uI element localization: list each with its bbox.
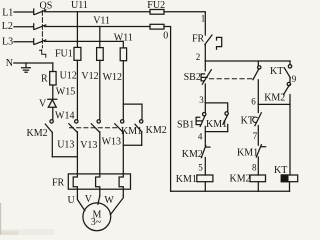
wire W13 column	[122, 132, 124, 174]
svg-text:4: 4	[198, 131, 203, 141]
svg-text:9: 9	[292, 74, 297, 84]
wire KM2 coil to rail	[257, 182, 259, 192]
resistor R	[50, 72, 56, 86]
QS mechanical link	[41, 11, 43, 48]
svg-text:KM2: KM2	[27, 128, 48, 139]
node 2 wire	[205, 60, 290, 62]
coil KM2	[250, 175, 266, 182]
svg-text:W13: W13	[102, 136, 121, 147]
fuse FU1 pole 2	[97, 48, 104, 61]
svg-text:V: V	[85, 194, 93, 205]
bottom rail	[171, 190, 290, 192]
svg-text:KM2: KM2	[182, 149, 203, 160]
ground	[22, 63, 31, 72]
svg-text:8: 8	[252, 162, 257, 172]
contactor KM1 main contact 3	[115, 120, 124, 132]
wire U12 column	[76, 60, 78, 119]
svg-text:V: V	[39, 98, 47, 109]
svg-text:KM2: KM2	[146, 125, 167, 136]
svg-text:KT: KT	[241, 116, 254, 127]
wire V11 column	[99, 27, 101, 48]
relay FR NC contact (control)	[205, 35, 222, 61]
wire W11 column	[122, 41, 124, 48]
svg-text:W12: W12	[103, 72, 122, 83]
coil KT	[281, 175, 297, 182]
wire L3	[14, 41, 33, 43]
svg-text:6: 6	[251, 97, 256, 107]
time relay KT NO instant contact	[284, 61, 291, 82]
wire N	[14, 62, 53, 64]
pushbutton SB2 NC	[201, 70, 211, 103]
wire L2	[14, 26, 33, 28]
switch QS pole 3	[34, 39, 46, 45]
svg-text:R: R	[41, 73, 48, 84]
svg-text:FU1: FU1	[55, 48, 73, 59]
contactor KM1 aux NO contact (self hold)	[223, 112, 228, 132]
svg-text:V13: V13	[80, 140, 97, 151]
FR heater jog 2	[96, 174, 100, 196]
svg-text:FU2: FU2	[147, 0, 165, 11]
svg-text:SB1: SB1	[177, 119, 194, 130]
thermal relay FR heater box	[68, 174, 130, 189]
contactor KM2 NO self hold	[284, 82, 291, 175]
svg-text:3~: 3~	[91, 217, 102, 228]
wire 0 rail top	[164, 27, 171, 192]
svg-text:1: 1	[201, 14, 206, 24]
svg-text:FR: FR	[52, 177, 65, 188]
wire V12 column	[99, 60, 101, 119]
branch SB2 NO	[253, 61, 261, 104]
motor lead W	[110, 196, 123, 215]
KM2 bypass branch top wire	[123, 104, 142, 120]
contactor KM2 braking contact (right)	[135, 120, 143, 146]
svg-text:7: 7	[253, 131, 258, 141]
KM1 mechanical link dashes	[70, 127, 118, 129]
svg-text:SB2: SB2	[184, 72, 201, 83]
svg-text:W14: W14	[55, 110, 74, 121]
diode V	[48, 99, 57, 107]
FR heater jog 1	[73, 174, 77, 196]
wire L2 right	[45, 26, 150, 28]
switch QS pole 2	[34, 24, 46, 30]
contactor KM1 main contact 2	[91, 120, 100, 132]
FR heater jog 3	[119, 174, 123, 196]
svg-text:5: 5	[198, 162, 203, 172]
svg-text:2: 2	[196, 52, 201, 62]
wire KT coil to rail	[289, 182, 291, 192]
svg-text:V11: V11	[93, 16, 110, 27]
svg-text:FR: FR	[192, 33, 205, 44]
wire U13 column	[76, 132, 78, 174]
svg-text:KT: KT	[274, 165, 287, 176]
contactor KM2 braking contact (left)	[45, 120, 53, 157]
node 6 wire	[258, 103, 290, 105]
wire L1 right	[45, 11, 150, 13]
svg-text:KM1: KM1	[206, 119, 227, 130]
fuse FU1 pole 3	[120, 48, 126, 61]
contactor KM1 NC interlock (right)	[256, 145, 265, 175]
motor lead V	[98, 196, 100, 204]
wire V13 column	[99, 132, 101, 174]
svg-text:U13: U13	[57, 140, 74, 151]
svg-text:L1: L1	[2, 8, 13, 19]
svg-text:U12: U12	[60, 70, 77, 81]
fuse FU2 pole 2	[150, 24, 164, 29]
node 4 wire	[205, 131, 227, 133]
wire W12 column	[122, 61, 124, 120]
contactor KM2 NC interlock	[201, 145, 210, 175]
svg-text:KM1: KM1	[121, 126, 142, 137]
motor lead U	[77, 196, 84, 211]
svg-text:QS: QS	[40, 1, 53, 12]
svg-text:N: N	[6, 58, 13, 69]
svg-text:L3: L3	[2, 36, 13, 47]
wire L1	[14, 11, 33, 13]
svg-text:KM1: KM1	[176, 174, 197, 185]
wire below node2	[204, 61, 206, 71]
pushbutton SB1 NO	[196, 103, 206, 146]
svg-text:V12: V12	[81, 71, 98, 82]
switch QS pole 1	[34, 9, 46, 15]
svg-text:W11: W11	[114, 32, 133, 43]
QS handle hook	[40, 50, 46, 57]
svg-text:U: U	[68, 195, 76, 206]
svg-text:KM2: KM2	[264, 93, 285, 104]
svg-text:W: W	[104, 195, 114, 206]
fuse FU1 pole 1	[74, 47, 81, 60]
svg-text:0: 0	[163, 31, 168, 42]
fuse FU2 pole 1	[150, 10, 164, 15]
wire node1 top	[164, 12, 205, 35]
SB2 linkage dashes	[210, 78, 253, 80]
resistor R branch wire	[52, 63, 54, 120]
svg-text:L2: L2	[2, 21, 13, 32]
wire U11 column	[76, 12, 78, 48]
svg-text:U11: U11	[71, 0, 88, 11]
svg-text:KM2: KM2	[230, 174, 251, 185]
svg-text:W15: W15	[56, 86, 75, 97]
node 3 wire	[205, 103, 227, 112]
coil KM1	[197, 175, 213, 182]
motor M circle	[83, 203, 111, 231]
time relay KT NC delayed contact	[253, 104, 262, 145]
wire L3 right	[45, 40, 124, 42]
svg-text:KM1: KM1	[237, 148, 258, 159]
svg-text:3: 3	[199, 95, 204, 105]
wire KM1 coil to rail	[204, 182, 206, 192]
KM2 bypass bottom wire	[123, 144, 141, 146]
wire KM2-left to U13	[52, 156, 77, 158]
svg-text:KT: KT	[270, 66, 283, 77]
contactor KM1 main contact 1	[69, 120, 78, 132]
